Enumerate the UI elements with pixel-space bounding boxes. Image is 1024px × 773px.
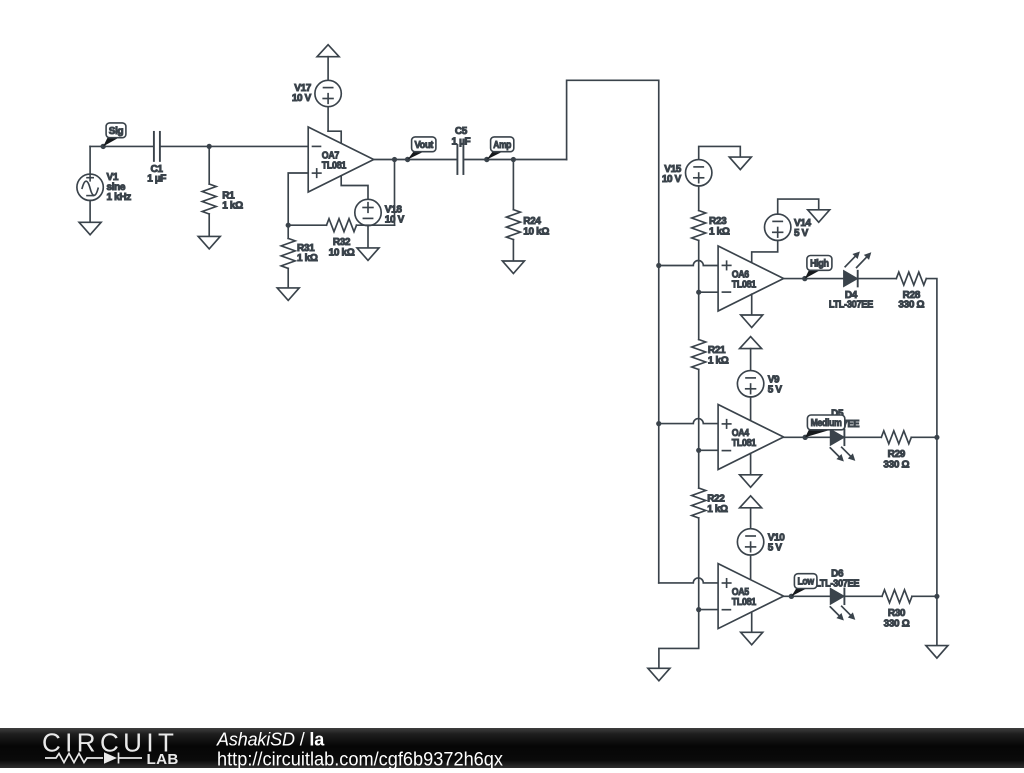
svg-text:LAB: LAB xyxy=(147,751,179,768)
svg-text:1 kΩ: 1 kΩ xyxy=(297,253,318,264)
svg-text:5 V: 5 V xyxy=(794,228,809,239)
svg-text:1 kΩ: 1 kΩ xyxy=(222,200,243,211)
svg-text:10 V: 10 V xyxy=(662,174,682,185)
svg-text:330 Ω: 330 Ω xyxy=(884,618,910,629)
svg-text:330 Ω: 330 Ω xyxy=(898,299,924,310)
svg-text:Medium: Medium xyxy=(811,418,842,429)
svg-text:1 kΩ: 1 kΩ xyxy=(709,226,730,237)
svg-text:LTL-307EE: LTL-307EE xyxy=(815,579,860,590)
svg-text:TL081: TL081 xyxy=(732,438,757,449)
svg-text:1 kΩ: 1 kΩ xyxy=(707,504,728,515)
svg-text:10 kΩ: 10 kΩ xyxy=(329,248,355,259)
svg-text:TL081: TL081 xyxy=(732,597,757,608)
svg-text:LTL-307EE: LTL-307EE xyxy=(829,299,874,310)
svg-text:Sig: Sig xyxy=(109,126,124,137)
svg-text:High: High xyxy=(810,258,829,269)
svg-text:1 µF: 1 µF xyxy=(147,174,166,185)
svg-text:TL081: TL081 xyxy=(322,161,347,172)
svg-text:10 V: 10 V xyxy=(292,93,312,104)
svg-text:5 V: 5 V xyxy=(768,542,783,553)
svg-text:1 µF: 1 µF xyxy=(451,136,470,147)
svg-text:5 V: 5 V xyxy=(768,384,783,395)
svg-text:1 kΩ: 1 kΩ xyxy=(708,355,729,366)
svg-text:330 Ω: 330 Ω xyxy=(883,459,909,470)
svg-text:Amp: Amp xyxy=(493,140,511,151)
svg-text:http://circuitlab.com/cgf6b937: http://circuitlab.com/cgf6b9372h6qx xyxy=(217,750,503,769)
svg-text:1 kHz: 1 kHz xyxy=(107,192,132,203)
svg-text:Vout: Vout xyxy=(414,140,434,151)
svg-text:AshakiSD / la: AshakiSD / la xyxy=(216,730,325,750)
svg-text:R32: R32 xyxy=(333,237,351,248)
svg-text:Low: Low xyxy=(797,577,814,588)
svg-text:TL081: TL081 xyxy=(732,280,757,291)
svg-text:10 kΩ: 10 kΩ xyxy=(523,226,549,237)
